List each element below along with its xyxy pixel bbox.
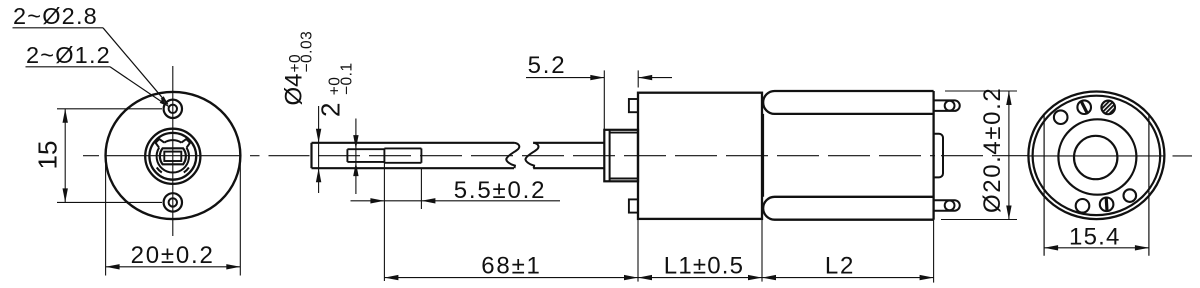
dimension 15.4 line	[1044, 247, 1149, 249]
svg-text:L1±0.5: L1±0.5	[664, 253, 744, 280]
left view horizontal centerline	[83, 155, 99, 157]
gearbox body	[638, 93, 762, 219]
dimension 15 extension lines	[57, 108, 162, 110]
right view center hole	[1074, 136, 1117, 179]
dimension 5.2 extension lines	[603, 70, 605, 129]
motor can right face	[932, 91, 934, 220]
hub ear tab upper-left	[156, 139, 165, 148]
left view vertical centerline	[172, 66, 174, 236]
rear hole plain lower-right	[1124, 189, 1137, 202]
dimension L1±0.5 line	[638, 277, 762, 279]
dimension Ø20.4±0.2 extension lines	[945, 90, 1017, 92]
mounting hole bottom	[164, 193, 182, 211]
svg-text:5.2: 5.2	[528, 52, 567, 79]
dimension 15 line	[64, 109, 66, 203]
svg-text:2~Ø1.2: 2~Ø1.2	[26, 42, 111, 68]
dimension Ø20.4±0.2 line	[1008, 91, 1010, 220]
right view end cap ring	[1033, 96, 1161, 215]
svg-text:−0.03: −0.03	[299, 31, 316, 73]
dimension 2 line and arrows	[355, 119, 357, 195]
flat chord / extension line right	[1148, 114, 1150, 256]
rear screw slotted lower-mid	[1100, 198, 1114, 212]
hub ear tab upper-right	[181, 139, 190, 148]
hub bearing ring arcs	[164, 140, 181, 142]
svg-text:Ø4: Ø4	[281, 73, 308, 105]
terminal tab bottom	[934, 200, 960, 211]
svg-text:68±1: 68±1	[481, 253, 541, 280]
motor end cap bump	[934, 134, 943, 178]
gearbox tab top	[629, 99, 638, 112]
motor can bottom band	[763, 197, 933, 220]
flat boundary edges	[346, 149, 348, 162]
hub lower arc slots	[184, 168, 189, 173]
svg-text:20±0.2: 20±0.2	[131, 242, 215, 269]
svg-text:15.4: 15.4	[1069, 224, 1121, 251]
dimension 5.5±0.2 line	[351, 200, 385, 202]
shaft flat top line	[347, 148, 384, 150]
shaft break symbol	[506, 143, 519, 168]
side view centerline	[318, 155, 935, 157]
svg-text:−0.1: −0.1	[339, 62, 356, 95]
rear hole plain lower-left	[1076, 199, 1090, 213]
left view: motor front face outer circle	[106, 92, 241, 219]
dimension 68±1 extension lines	[637, 219, 639, 282]
gearbox tab bottom	[629, 199, 638, 212]
shaft flat bottom line	[347, 161, 384, 163]
rear screw slotted upper-mid	[1077, 100, 1091, 114]
flat chord / extension line left	[1043, 114, 1045, 256]
svg-text:L2: L2	[825, 253, 855, 280]
svg-text:2: 2	[316, 103, 346, 117]
rear hole hatched upper-right	[1101, 101, 1115, 115]
shaft hole with flats (front)	[160, 148, 186, 164]
svg-text:2~Ø2.8: 2~Ø2.8	[13, 3, 98, 29]
right view outer circle	[1028, 92, 1164, 220]
hub boss outer circle	[145, 129, 200, 184]
dimension 5.5±0.2 extension lines	[383, 162, 385, 281]
dimension L2 line	[762, 277, 934, 279]
right view horizontal centerline	[1029, 155, 1165, 157]
svg-text:Ø20.4±0.2: Ø20.4±0.2	[979, 87, 1006, 213]
dimension 68±1 line	[384, 277, 638, 279]
motor can body left edge	[762, 114, 764, 197]
dimension Ø4 line and arrows	[318, 106, 320, 193]
terminal tab top	[934, 100, 960, 111]
shaft hole inner slot	[164, 152, 181, 161]
hub boss inner circle	[149, 133, 196, 180]
dimension L2 extension line	[933, 220, 935, 283]
right view bearing circle	[1058, 119, 1136, 194]
dimension 20±0.2 line	[106, 266, 241, 268]
terminal eyelet bottom	[945, 201, 955, 211]
dimension 20±0.2 extension lines	[105, 162, 107, 276]
motor can top band	[763, 91, 933, 114]
terminal eyelet top	[945, 101, 955, 111]
rear hole plain upper-left	[1054, 110, 1068, 124]
leader line for 2~Ø2.8	[13, 27, 104, 29]
bearing boss front lip	[604, 130, 638, 182]
shaft tip edge	[310, 143, 312, 168]
shaft top edge	[312, 142, 515, 144]
svg-text:15: 15	[33, 141, 63, 170]
dimension 5.2 line	[526, 77, 604, 79]
leader line for 2~Ø1.2	[26, 66, 111, 68]
svg-text:5.5±0.2: 5.5±0.2	[454, 177, 547, 204]
mounting hole top (2~Ø2.8 / Ø1.2)	[164, 100, 182, 118]
shaft bottom edge	[312, 167, 515, 169]
